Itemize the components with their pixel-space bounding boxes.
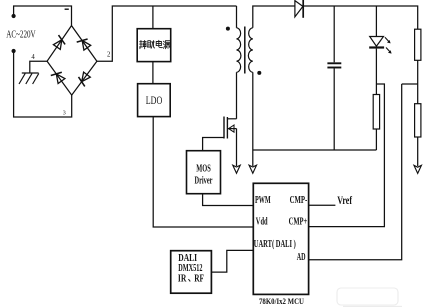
MOS Driver box	[187, 151, 221, 194]
wire LDO to MCU Vdd pin	[153, 117, 253, 227]
transistor Q1 MOSFET	[224, 117, 237, 139]
resistor R2 (lower right)	[415, 104, 421, 137]
wire auxiliary supply to LDO	[152, 62, 154, 84]
wire AC top terminal to bridge top node	[14, 6, 72, 26]
svg-text:4: 4	[31, 54, 35, 61]
svg-text:RF: RF	[194, 274, 204, 285]
resistor R3 (LED current sense)	[373, 95, 379, 130]
svg-text:Vdd: Vdd	[256, 216, 268, 227]
wire bridge right node to top bus	[97, 6, 237, 61]
svg-text:LDO: LDO	[146, 93, 163, 107]
wire secondary return line	[253, 149, 377, 151]
svg-text:MOS: MOS	[196, 163, 211, 175]
resistor R1 (upper right)	[415, 29, 421, 60]
down arrow secondary return	[249, 165, 256, 173]
wire bus to capacitor C1	[333, 6, 335, 62]
bridge rectifier diamond wires	[47, 26, 97, 96]
wire driver to MCU PWM pin	[203, 194, 254, 206]
wire LED line branch to CMP+ sense	[309, 84, 385, 227]
wire tap down to R2	[417, 84, 419, 104]
diode D2 bridge NE arm	[77, 39, 91, 50]
wire secondary bottom down	[252, 72, 254, 166]
svg-text:Vref: Vref	[337, 195, 352, 207]
svg-text:3: 3	[63, 110, 66, 116]
diode D3 bridge SW arm	[51, 72, 65, 83]
down arrow MOSFET source	[233, 165, 240, 173]
svg-text:2: 2	[107, 52, 111, 59]
svg-text:UART( DALI ): UART( DALI )	[254, 239, 296, 250]
LED D6	[369, 37, 391, 54]
wire output diode to right rail	[303, 6, 418, 29]
svg-text:IR: IR	[178, 274, 187, 285]
wire secondary top to output diode	[253, 6, 295, 28]
down arrow right (R2 return)	[414, 165, 421, 173]
AC input terminal lower	[12, 49, 16, 53]
AC input terminal upper	[12, 14, 16, 18]
wire bridge left node to ground	[30, 61, 47, 73]
transformer primary lead from bus	[236, 6, 238, 28]
auxiliary power supply box (辅助电源)	[137, 29, 171, 62]
svg-text:78K0/Ix2 MCU: 78K0/Ix2 MCU	[259, 297, 304, 306]
svg-text:Driver: Driver	[195, 174, 213, 186]
wire R1 to divider tap	[417, 60, 419, 84]
diode D4 bridge SE arm	[79, 72, 91, 86]
wire LED cathode to R3	[375, 49, 377, 95]
MCU U1 box 78K0/Ix2	[253, 183, 308, 294]
DALI DMX512 IR RF box	[171, 251, 212, 294]
svg-text:PWM: PWM	[255, 195, 271, 206]
wire R2 to arrow	[417, 137, 419, 166]
transformer phase dot secondary	[257, 71, 261, 75]
faint smudge (scan artifact)	[337, 288, 398, 305]
wire capacitor to return line	[333, 68, 335, 150]
transformer core	[244, 27, 246, 74]
wire divider tap junction	[402, 83, 418, 85]
wire CMP- to Vref stub	[309, 204, 336, 206]
ground (chassis) symbol	[19, 73, 39, 84]
wire MOSFET gate to driver	[203, 138, 224, 151]
wire primary bottom to MOSFET drain	[236, 72, 238, 119]
transformer primary winding	[237, 28, 241, 73]
svg-text:AD: AD	[297, 252, 306, 263]
output diode D5	[295, 0, 303, 18]
wire AC bottom terminal to bridge bottom node	[14, 52, 72, 117]
transformer secondary winding	[248, 28, 252, 73]
svg-text:AC~220V: AC~220V	[6, 30, 36, 41]
diode D1 bridge NW arm	[53, 35, 65, 49]
label 辅助电源 (drawn strokes)	[139, 40, 170, 49]
wire bus to LED	[375, 6, 377, 37]
svg-text:DMX512: DMX512	[178, 263, 202, 274]
pin mark 1 (dash near bridge top)	[65, 8, 69, 10]
capacitor C1	[327, 63, 341, 67]
wire bus to auxiliary supply	[152, 6, 154, 29]
svg-text:CMP-: CMP-	[290, 195, 308, 206]
wire AD sense line	[309, 84, 402, 260]
wire MOSFET source down	[236, 129, 238, 166]
wire DALI box to MCU UART pin	[211, 250, 253, 272]
svg-text:CMP+: CMP+	[289, 216, 308, 227]
wire R3 bottom to return line	[375, 129, 377, 150]
LDO box	[138, 84, 171, 117]
transformer phase dot primary	[226, 27, 230, 31]
